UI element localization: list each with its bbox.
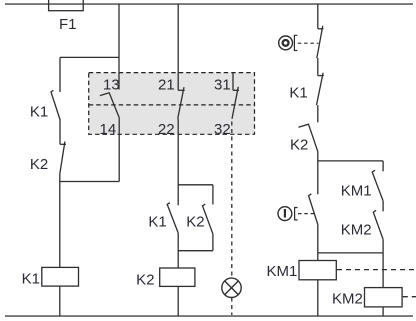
svg-text:K2: K2	[290, 137, 308, 154]
svg-text:KM1: KM1	[341, 183, 372, 200]
svg-text:K1: K1	[289, 85, 307, 102]
svg-text:14: 14	[100, 121, 117, 138]
svg-text:21: 21	[158, 77, 175, 94]
svg-text:32: 32	[214, 121, 231, 138]
svg-text:13: 13	[103, 77, 120, 94]
svg-text:K1: K1	[30, 104, 48, 121]
svg-text:31: 31	[214, 77, 231, 94]
svg-text:K2: K2	[136, 271, 154, 288]
svg-text:K1: K1	[148, 214, 166, 231]
svg-text:KM1: KM1	[267, 263, 298, 280]
svg-text:KM2: KM2	[341, 222, 372, 239]
svg-text:F1: F1	[59, 16, 77, 33]
svg-text:KM2: KM2	[332, 291, 363, 308]
svg-text:22: 22	[158, 121, 175, 138]
svg-text:K2: K2	[30, 156, 48, 173]
svg-text:K2: K2	[186, 214, 204, 231]
svg-text:K1: K1	[22, 270, 40, 287]
